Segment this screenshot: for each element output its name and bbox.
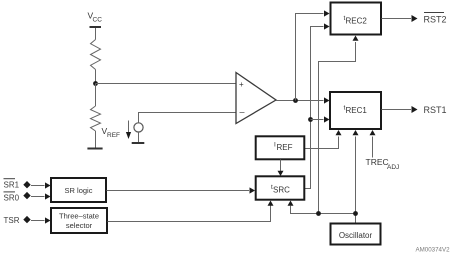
label VCC [88, 11, 103, 24]
svg-text:SRC: SRC [273, 186, 290, 195]
svg-text:REF: REF [277, 143, 293, 152]
arrow into tREC1 bottom 2 [353, 130, 359, 135]
arrow into tREC2 input 1 [324, 10, 330, 16]
block tREC2 U2 [331, 3, 382, 35]
svg-text:Oscillator: Oscillator [339, 231, 373, 240]
svg-text:AM00374V2: AM00374V2 [416, 247, 450, 254]
svg-text:REF: REF [107, 132, 120, 139]
terminal circle VREF [134, 123, 143, 132]
block SR logic U6 [51, 178, 106, 202]
svg-text:TREC: TREC [366, 157, 389, 167]
wire node B up to tREC2 input 1 [296, 14, 324, 101]
node B junction [293, 98, 298, 103]
pin diamond TSR [23, 216, 30, 223]
arrow into tREC1 bottom 3 [370, 130, 376, 135]
pin diamond SR1 [23, 181, 30, 188]
wire node C to tREC1 input 2 [311, 119, 324, 121]
arrow into tSRC left [250, 187, 256, 193]
arrow into tREC2 bottom [353, 36, 359, 41]
wire R1 to node A [95, 70, 97, 84]
block oscillator U8 [331, 224, 381, 245]
svg-text:SR0: SR0 [4, 194, 20, 203]
wire three-state selector to tSRC bottom 1 [108, 206, 271, 222]
arrow into three-state selector [45, 217, 51, 223]
resistor R2 [91, 106, 101, 131]
ground circle [132, 142, 145, 144]
svg-text:TSR: TSR [4, 216, 20, 225]
arrow into tREC2 input 2 [324, 23, 330, 29]
arrow into tSRC top [278, 171, 284, 176]
arrow VREF down [128, 121, 130, 133]
wire R2 to ground [95, 131, 97, 148]
node C junction on tSRC column [308, 117, 313, 122]
pin diamond SR0 [23, 192, 30, 199]
wire oscillator to tREC1 bottom 2 [355, 137, 357, 224]
arrow into tREC1 input 2 [324, 116, 330, 122]
wire tREC1 output to RST1 [382, 109, 412, 111]
arrow into SR logic input 1 [45, 182, 51, 188]
wire tSRC bottom 2 to oscillator net [291, 206, 356, 214]
svg-text:selector: selector [66, 221, 93, 230]
svg-text:REC1: REC1 [346, 106, 368, 115]
wire SR logic to tSRC [107, 190, 250, 192]
node A junction [93, 81, 98, 86]
wire node A to R2 [95, 84, 97, 107]
wire TRECADJ stub [372, 137, 374, 158]
arrow into SR logic input 2 [45, 193, 51, 199]
svg-text:–: – [240, 107, 245, 117]
node E junction [353, 211, 358, 216]
wire IREF to tSRC [280, 160, 282, 172]
svg-text:+: + [239, 80, 244, 89]
wire comparator output to node B [276, 100, 324, 102]
ground divider [87, 148, 102, 150]
svg-text:Three–state: Three–state [59, 212, 99, 221]
resistor R1 [91, 40, 101, 70]
wire SR0 to SR logic [31, 196, 45, 198]
svg-text:CC: CC [93, 17, 103, 24]
arrow into tREC1 bottom 1 [336, 130, 342, 135]
wire circle to ground [138, 132, 140, 143]
label SR0 with overline [4, 192, 20, 203]
wire circle to comparator minus input [139, 113, 237, 123]
arrow into tSRC bottom 1 [268, 201, 274, 206]
arrow into tSRC bottom 2 [288, 201, 294, 206]
block tSRC U5 [256, 176, 305, 199]
op-amp comparator U1 [236, 73, 276, 124]
block IREF U4 [256, 136, 305, 159]
wire TSR to three-state selector [31, 220, 45, 222]
wire node A to comparator plus input [96, 83, 237, 85]
wire VCC to R1 [95, 28, 97, 40]
block three-state selector U7 [51, 208, 107, 233]
wire oscillator net to tREC2 bottom [319, 42, 356, 214]
wire SR1 to SR logic [31, 185, 45, 187]
svg-text:ADJ: ADJ [387, 164, 399, 171]
arrow into tREC1 input 1 [324, 97, 330, 103]
wire IREF to tREC1 bottom 1 [305, 137, 339, 149]
wire tREC2 output to RST2 [382, 18, 412, 20]
label RST2 with overline [424, 13, 447, 25]
label TRECADJ [366, 157, 400, 171]
svg-text:RST1: RST1 [424, 105, 447, 115]
node D junction [316, 211, 321, 216]
wire tSRC output up column [305, 27, 324, 189]
arrow RST2 [412, 15, 418, 22]
svg-text:RST2: RST2 [424, 15, 447, 25]
svg-text:SR logic: SR logic [65, 186, 93, 195]
block tREC1 U3 [330, 92, 381, 129]
svg-text:REC2: REC2 [346, 17, 368, 26]
label SR1 with overline [4, 179, 20, 190]
power VCC bar [90, 26, 102, 28]
arrow RST1 [412, 106, 418, 113]
label VREF [102, 126, 121, 139]
svg-text:SR1: SR1 [4, 181, 20, 190]
